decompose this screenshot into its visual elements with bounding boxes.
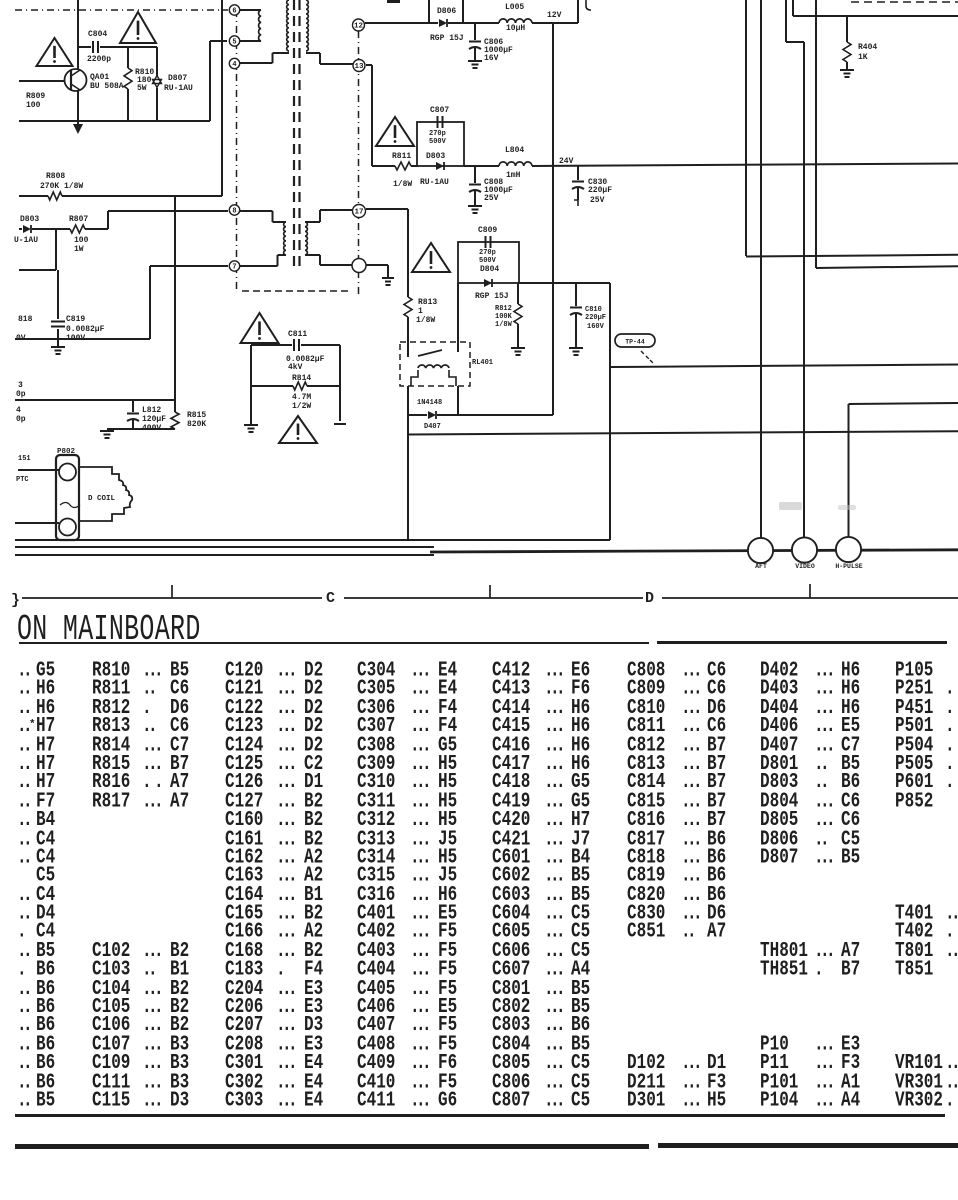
- svg-text:1/8W: 1/8W: [393, 180, 412, 189]
- svg-text:12: 12: [354, 23, 364, 31]
- svg-text:24V: 24V: [559, 157, 574, 166]
- svg-text:1/2W: 1/2W: [292, 402, 311, 411]
- svg-text:4: 4: [16, 406, 21, 415]
- svg-text:D407: D407: [424, 423, 441, 431]
- svg-text:16V: 16V: [484, 54, 499, 63]
- svg-text:17: 17: [354, 209, 363, 217]
- svg-text:L005: L005: [505, 3, 524, 12]
- svg-text:270p: 270p: [479, 249, 496, 257]
- svg-text:PTC: PTC: [16, 476, 29, 484]
- svg-text:C: C: [326, 590, 335, 607]
- svg-text:0p: 0p: [16, 415, 26, 424]
- svg-text:C804: C804: [88, 30, 107, 39]
- svg-text:4: 4: [232, 61, 236, 69]
- svg-text:818: 818: [18, 315, 33, 324]
- svg-text:270K 1/8W: 270K 1/8W: [40, 182, 83, 191]
- svg-text:1N4148: 1N4148: [417, 399, 442, 407]
- svg-text:500V: 500V: [429, 138, 447, 146]
- svg-text:820K: 820K: [187, 420, 206, 429]
- svg-text:25V: 25V: [590, 196, 605, 205]
- svg-text:100K: 100K: [495, 313, 513, 321]
- svg-text:1/8W: 1/8W: [416, 316, 435, 325]
- svg-text:4.7M: 4.7M: [292, 393, 311, 402]
- svg-text:D: D: [645, 590, 654, 607]
- svg-text:BU 508A: BU 508A: [90, 82, 124, 91]
- svg-text:6: 6: [232, 8, 236, 16]
- svg-text:D COIL: D COIL: [88, 495, 116, 503]
- svg-text:H-PULSE: H-PULSE: [835, 563, 862, 570]
- svg-text:500V: 500V: [479, 257, 497, 265]
- svg-text:L812: L812: [142, 406, 161, 415]
- svg-text:2200p: 2200p: [87, 55, 111, 64]
- svg-text:400V: 400V: [142, 424, 161, 433]
- svg-text:C809: C809: [478, 226, 497, 235]
- svg-text:R814: R814: [292, 374, 311, 383]
- svg-text:AFT: AFT: [755, 563, 767, 570]
- svg-text:C819: C819: [66, 315, 85, 324]
- svg-text:220µF: 220µF: [585, 314, 606, 322]
- svg-text:U-1AU: U-1AU: [14, 236, 38, 245]
- svg-text:151: 151: [18, 455, 31, 463]
- svg-text:1: 1: [418, 307, 423, 316]
- svg-text:D806: D806: [437, 7, 456, 16]
- svg-text:270p: 270p: [429, 130, 446, 138]
- svg-text:100: 100: [74, 236, 89, 245]
- svg-text:7: 7: [232, 264, 236, 272]
- svg-text:QA01: QA01: [90, 73, 109, 82]
- svg-text:R812: R812: [495, 305, 512, 313]
- svg-text:3: 3: [18, 381, 23, 390]
- svg-text:12V: 12V: [547, 11, 562, 20]
- svg-text:5: 5: [232, 39, 236, 47]
- svg-text:1K: 1K: [858, 53, 868, 62]
- svg-text:D804: D804: [480, 265, 499, 274]
- svg-text:TP-44: TP-44: [625, 339, 645, 346]
- svg-text:25V: 25V: [484, 194, 499, 203]
- svg-text:RGP 15J: RGP 15J: [475, 292, 509, 301]
- svg-text:L804: L804: [505, 146, 524, 155]
- svg-text:RU-1AU: RU-1AU: [420, 178, 449, 187]
- svg-text:RGP 15J: RGP 15J: [430, 34, 464, 43]
- svg-text:R807: R807: [69, 215, 88, 224]
- svg-text:P802: P802: [57, 448, 76, 456]
- svg-text:R404: R404: [858, 43, 877, 52]
- svg-text:220µF: 220µF: [588, 186, 612, 195]
- svg-text:R815: R815: [187, 411, 206, 420]
- svg-text:C807: C807: [430, 106, 449, 115]
- svg-text:R811: R811: [392, 152, 411, 161]
- svg-text:0p: 0p: [16, 390, 26, 399]
- svg-text:VIDEO: VIDEO: [795, 563, 815, 570]
- svg-text:D803: D803: [426, 152, 445, 161]
- svg-text:1mH: 1mH: [506, 171, 521, 180]
- svg-text:5W: 5W: [137, 84, 147, 93]
- svg-text:R808: R808: [46, 172, 65, 181]
- svg-text:8: 8: [232, 208, 236, 216]
- svg-text:}: }: [11, 592, 20, 609]
- svg-text:C811: C811: [288, 330, 307, 339]
- svg-text:160V: 160V: [587, 323, 605, 331]
- svg-text:120µF: 120µF: [142, 415, 166, 424]
- svg-text:13: 13: [354, 63, 364, 71]
- svg-text:0.0082µF: 0.0082µF: [66, 325, 105, 334]
- svg-text:C810: C810: [585, 306, 602, 314]
- svg-text:1/8W: 1/8W: [495, 321, 513, 329]
- svg-text:1W: 1W: [74, 245, 84, 254]
- svg-text:D807: D807: [168, 74, 187, 83]
- svg-text:100: 100: [26, 101, 41, 110]
- svg-text:10µH: 10µH: [506, 24, 525, 33]
- svg-text:D803: D803: [20, 215, 39, 224]
- svg-text:4kV: 4kV: [288, 363, 303, 372]
- svg-text:RU-1AU: RU-1AU: [164, 84, 193, 93]
- svg-text:R809: R809: [26, 92, 45, 101]
- svg-text:R813: R813: [418, 298, 437, 307]
- svg-text:RL401: RL401: [472, 359, 493, 367]
